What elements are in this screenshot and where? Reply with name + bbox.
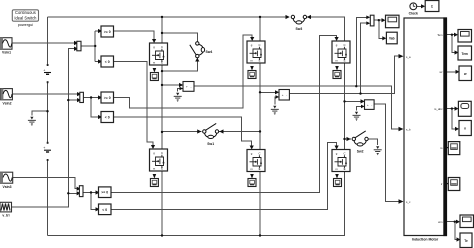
svg-text:+: + xyxy=(186,85,188,89)
svg-text:>= 0: >= 0 xyxy=(104,96,111,100)
DC source 2 xyxy=(43,142,51,161)
ground Sw2 xyxy=(374,146,382,155)
gate arrows down xyxy=(152,39,156,43)
junction leg A meas tap xyxy=(161,84,163,86)
svg-text:-: - xyxy=(371,103,372,107)
wire Va to mux xyxy=(356,17,367,86)
junction leg C Sw2 tap xyxy=(343,138,345,140)
wire measC gnd branch xyxy=(357,106,365,110)
wire tri tap C xyxy=(68,192,76,194)
switch Sw1 xyxy=(203,123,219,138)
arrowheads signal flow xyxy=(74,4,461,241)
switch arrows xyxy=(286,15,290,19)
IGBT A top xyxy=(150,43,168,65)
svg-text:< 0: < 0 xyxy=(105,115,110,119)
powergui block xyxy=(12,10,38,27)
cmp C1 >=0 xyxy=(99,187,112,198)
wire top DC bus xyxy=(48,16,290,18)
wire v_tri bus xyxy=(12,49,75,207)
junction Va branch xyxy=(355,85,357,87)
mux A xyxy=(77,41,81,51)
wire tri tap B xyxy=(68,99,77,101)
junction leg B Sw1 tap xyxy=(259,130,261,132)
scope wm xyxy=(460,215,474,228)
svg-text:Sw2: Sw2 xyxy=(357,149,364,153)
wire mux to scope xyxy=(374,19,383,21)
svg-text:v_tri: v_tri xyxy=(2,214,9,218)
wire muxC out split xyxy=(83,193,96,210)
wire midpoint ground branch xyxy=(32,111,48,115)
display Te xyxy=(460,233,472,248)
svg-text:s_c: s_c xyxy=(406,200,411,204)
motor input arrows xyxy=(399,54,404,58)
junction DC midpoint ground tap xyxy=(46,110,48,112)
svg-text:Te: Te xyxy=(464,239,468,243)
svg-text:Vsin1: Vsin1 xyxy=(2,51,11,55)
meas B bottom xyxy=(248,179,256,187)
meas block Vb xyxy=(279,90,289,101)
junction leg C meas tap xyxy=(343,100,345,102)
svg-text:+: + xyxy=(43,69,45,73)
ground measC xyxy=(353,112,361,121)
display Vab xyxy=(386,32,397,44)
switch Sw3 xyxy=(291,15,306,24)
svg-text:Vsin2: Vsin2 xyxy=(2,102,11,106)
wire mux to Vab xyxy=(379,20,384,38)
junction mux A split xyxy=(94,45,96,47)
display Tem xyxy=(458,46,472,60)
IGBT A bottom xyxy=(150,149,168,171)
wire Vb out xyxy=(289,56,400,93)
junction mux C split xyxy=(90,191,92,193)
cmp C2 <0 xyxy=(99,204,112,215)
wire muxA out split xyxy=(81,31,98,62)
clock arrow xyxy=(421,4,425,8)
meas input arrows xyxy=(179,83,183,87)
wire measA input xyxy=(162,84,180,86)
junction scope branch xyxy=(378,19,380,21)
mux Vab top right xyxy=(370,15,374,26)
svg-text:< 0: < 0 xyxy=(105,60,110,64)
junction mux B split xyxy=(90,96,92,98)
wire Vsin1 to mux xyxy=(12,42,74,44)
svg-text:>= 0: >= 0 xyxy=(101,191,108,195)
svg-text:w: w xyxy=(463,72,467,76)
meas block Va xyxy=(183,82,194,92)
svg-text:ir: ir xyxy=(441,182,443,186)
junction wm branch xyxy=(454,221,456,223)
wire Sw4 branch bottom xyxy=(162,58,197,71)
wire Vc out xyxy=(374,104,400,201)
source Vsin1 xyxy=(0,38,12,55)
wire bottom DC rail xyxy=(48,172,345,236)
svg-text:+: + xyxy=(367,103,369,107)
cmp B1 >=0 xyxy=(101,92,114,103)
wire left DC bus xyxy=(47,17,49,236)
svg-text:Sw4: Sw4 xyxy=(206,50,213,54)
svg-text:is_abc: is_abc xyxy=(434,107,443,111)
svg-text:wr: wr xyxy=(440,70,443,74)
source Vsin3 xyxy=(0,172,13,189)
induction motor block xyxy=(404,17,447,241)
svg-text:-: - xyxy=(191,85,192,89)
display n xyxy=(459,121,471,136)
wire cmpB1 to gate xyxy=(114,35,253,108)
wire cmpA1 to gate xyxy=(114,31,155,40)
m-port arrows down xyxy=(153,68,157,73)
wire measB input xyxy=(260,91,276,93)
clock xyxy=(409,3,418,16)
wire Vsin3 to mux xyxy=(13,177,77,188)
junction leg B top bus xyxy=(259,16,261,18)
wire Sw2 left xyxy=(345,138,351,140)
wire measA gnd branch xyxy=(178,89,183,92)
meas C top xyxy=(333,71,341,79)
cmp A1 >=0 xyxy=(101,26,114,37)
wire Sw1 left xyxy=(162,131,202,133)
wire Vsin2 to mux xyxy=(12,93,77,95)
wire clock to t xyxy=(417,5,423,7)
wire measB gnd branch xyxy=(275,97,279,105)
svg-text:Tem: Tem xyxy=(462,52,468,56)
svg-text:Sw1: Sw1 xyxy=(207,142,214,146)
source v_tri xyxy=(0,202,12,217)
IGBT B bottom xyxy=(247,150,265,172)
mux B xyxy=(80,92,84,102)
switch Sw4 xyxy=(190,42,205,58)
wire Sw1 right xyxy=(219,131,260,133)
scope Vab xyxy=(386,15,400,28)
mux C xyxy=(79,186,83,197)
svg-text:+: + xyxy=(282,93,284,97)
wire cmpC1 to gate xyxy=(111,35,337,192)
meas C bottom xyxy=(334,179,342,187)
junction is branch xyxy=(451,107,453,109)
svg-text:>= 0: >= 0 xyxy=(104,30,111,34)
wire port s2 xyxy=(447,183,449,185)
source Vsin2 xyxy=(1,89,13,106)
display w xyxy=(459,66,472,81)
wire muxB out split xyxy=(83,98,98,118)
meas A bottom xyxy=(150,179,158,187)
junction leg B bottom rail xyxy=(259,234,261,236)
wire port Tem split xyxy=(447,35,456,53)
svg-text:s_b: s_b xyxy=(406,128,411,132)
ground midpoint xyxy=(28,117,36,126)
small scope 2 xyxy=(448,178,460,191)
svg-text:Vab: Vab xyxy=(389,37,395,41)
wire Vb to mux xyxy=(361,23,368,93)
switch Sw2 xyxy=(352,131,368,146)
IGBT C top xyxy=(332,41,350,63)
wire Sw2 right to ground xyxy=(368,139,377,145)
cmp A2 <0 xyxy=(101,56,114,67)
junction leg A midpoint Sw4 return xyxy=(161,70,163,72)
wire Va out xyxy=(194,86,401,129)
svg-text:powergui: powergui xyxy=(18,23,34,27)
svg-text:n: n xyxy=(464,127,466,131)
small scope 1 xyxy=(448,142,460,155)
junction Sw4 tap xyxy=(161,32,163,34)
svg-text:Vsin3: Vsin3 xyxy=(2,185,11,189)
meas block Vc xyxy=(365,100,375,110)
wire Sw4 branch top xyxy=(162,33,197,42)
junction Tem branch xyxy=(451,34,453,36)
cmp B2 <0 xyxy=(101,112,114,123)
junction tri bus tap B xyxy=(67,99,69,101)
block t xyxy=(425,1,439,12)
wire port w xyxy=(447,71,457,73)
DC source 1 xyxy=(43,64,51,83)
svg-text:Tem: Tem xyxy=(437,33,443,37)
wire cmpA2 to gate xyxy=(114,62,154,146)
scope Tem xyxy=(458,30,472,43)
scope is xyxy=(458,101,471,116)
wire cmpC2 to gate xyxy=(111,143,337,210)
wire measC input xyxy=(345,100,362,102)
svg-text:s_a: s_a xyxy=(406,55,411,59)
svg-text:Sw3: Sw3 xyxy=(296,27,303,31)
svg-text:< 0: < 0 xyxy=(102,208,107,212)
ground measB xyxy=(271,106,279,115)
wire port is split xyxy=(447,109,456,129)
wire leg C bus xyxy=(344,64,346,150)
svg-text:+: + xyxy=(43,146,45,150)
junction leg A bottom rail xyxy=(161,234,163,236)
IGBT C bottom xyxy=(332,150,350,172)
junction Vb branch xyxy=(359,92,361,94)
sink arrows xyxy=(454,33,458,37)
junction leg A Sw1 tap xyxy=(161,131,163,133)
wire leg A bus xyxy=(161,17,163,236)
svg-text:-: - xyxy=(286,93,287,97)
junction leg B meas tap xyxy=(259,91,261,93)
svg-text:Induction Motor: Induction Motor xyxy=(412,238,439,242)
wire cmpB2 to gate xyxy=(114,117,252,146)
wire leg B bus xyxy=(259,17,261,236)
IGBT B top xyxy=(247,41,265,63)
svg-text:wm: wm xyxy=(438,220,443,224)
wire port wm split xyxy=(447,222,457,240)
wire port s1 xyxy=(447,147,449,149)
junction tri bus tap C xyxy=(67,192,69,194)
ground measA xyxy=(174,93,182,102)
svg-text:Ideal Switch: Ideal Switch xyxy=(14,15,37,20)
meas B top xyxy=(248,71,256,79)
svg-text:Clock: Clock xyxy=(409,12,418,16)
junction leg A top bus xyxy=(161,16,163,18)
mux TR arrows xyxy=(366,16,370,20)
meas A top xyxy=(150,73,158,81)
